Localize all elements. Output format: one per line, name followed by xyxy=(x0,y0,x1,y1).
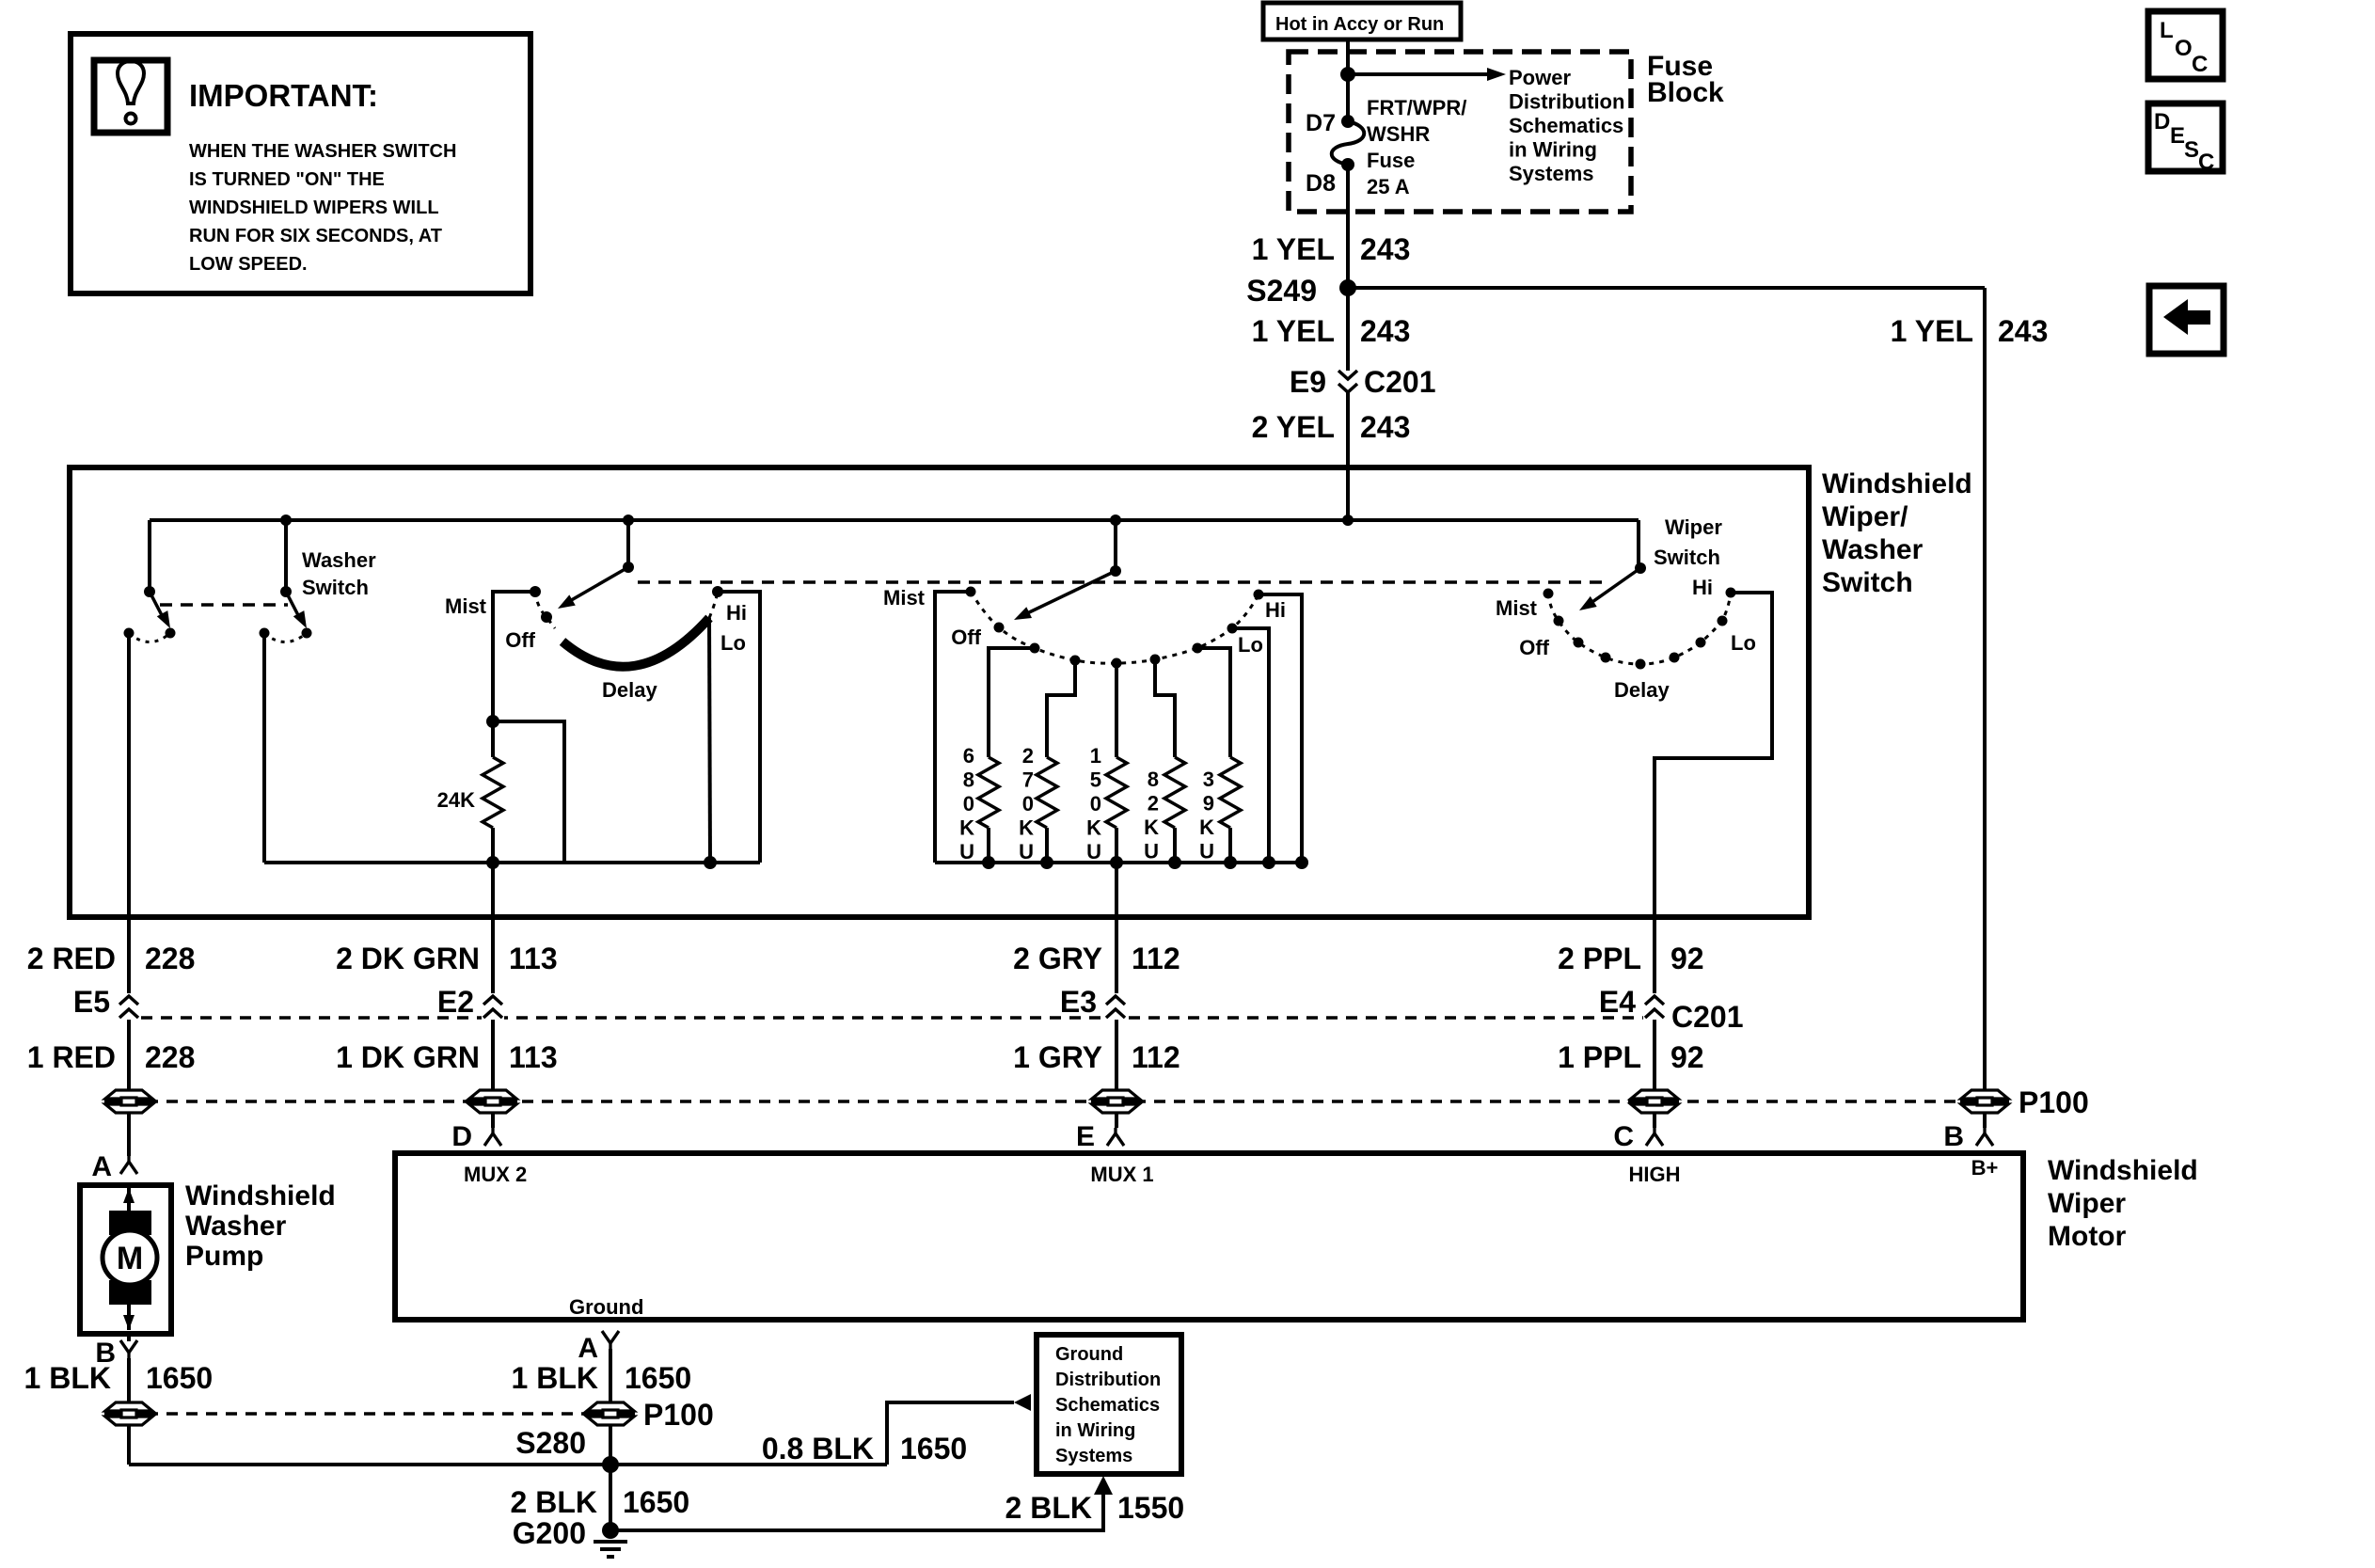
svg-text:K: K xyxy=(1144,816,1159,839)
svg-text:WINDSHIELD WIPERS WILL: WINDSHIELD WIPERS WILL xyxy=(189,198,439,218)
svg-text:L: L xyxy=(2160,18,2174,43)
svg-text:Hi: Hi xyxy=(1265,598,1286,622)
svg-text:25 A: 25 A xyxy=(1367,175,1410,198)
svg-text:2 GRY: 2 GRY xyxy=(1013,942,1102,975)
svg-text:Washer: Washer xyxy=(185,1211,287,1242)
svg-text:0.8 BLK: 0.8 BLK xyxy=(762,1432,874,1465)
svg-text:Fuse: Fuse xyxy=(1367,149,1415,172)
svg-text:M: M xyxy=(117,1241,143,1276)
svg-text:Block: Block xyxy=(1647,77,1724,108)
svg-text:Windshield: Windshield xyxy=(2048,1155,2198,1186)
svg-text:2 YEL: 2 YEL xyxy=(1252,410,1335,444)
svg-text:P100: P100 xyxy=(643,1398,714,1432)
svg-text:A: A xyxy=(578,1333,598,1364)
svg-text:in Wiring: in Wiring xyxy=(1055,1420,1135,1441)
svg-text:B: B xyxy=(1943,1121,1964,1152)
svg-text:Wiper: Wiper xyxy=(2048,1188,2126,1219)
svg-text:S280: S280 xyxy=(515,1426,586,1460)
svg-text:2: 2 xyxy=(1148,792,1159,816)
svg-text:Pump: Pump xyxy=(185,1241,263,1272)
svg-text:Systems: Systems xyxy=(1509,162,1594,185)
svg-text:92: 92 xyxy=(1670,942,1704,975)
svg-text:Mist: Mist xyxy=(883,586,926,610)
svg-text:Distribution: Distribution xyxy=(1055,1370,1161,1390)
svg-text:5: 5 xyxy=(1090,768,1101,792)
svg-text:Systems: Systems xyxy=(1055,1446,1132,1466)
svg-text:in Wiring: in Wiring xyxy=(1509,138,1597,162)
svg-text:Hot in Accy or Run: Hot in Accy or Run xyxy=(1275,14,1444,35)
svg-text:Switch: Switch xyxy=(1822,567,1913,598)
svg-text:228: 228 xyxy=(145,1040,195,1074)
svg-text:E: E xyxy=(2170,123,2185,149)
svg-text:D: D xyxy=(2154,109,2170,135)
svg-text:0: 0 xyxy=(963,792,974,816)
svg-text:E: E xyxy=(1076,1121,1095,1152)
svg-text:Lo: Lo xyxy=(1238,633,1263,657)
svg-text:Hi: Hi xyxy=(1692,576,1713,599)
svg-text:3: 3 xyxy=(1203,768,1214,791)
svg-text:Mist: Mist xyxy=(1496,596,1538,620)
svg-text:7: 7 xyxy=(1022,768,1034,792)
svg-text:LOW SPEED.: LOW SPEED. xyxy=(189,254,308,275)
svg-text:U: U xyxy=(1199,840,1214,863)
svg-text:2 RED: 2 RED xyxy=(27,942,116,975)
svg-text:Lo: Lo xyxy=(720,631,746,655)
svg-text:WHEN THE WASHER SWITCH: WHEN THE WASHER SWITCH xyxy=(189,141,456,162)
svg-text:1650: 1650 xyxy=(625,1361,691,1395)
svg-text:Delay: Delay xyxy=(602,678,657,702)
svg-text:1550: 1550 xyxy=(1117,1491,1184,1525)
svg-text:U: U xyxy=(1144,840,1159,863)
svg-text:C: C xyxy=(2198,150,2214,175)
svg-text:E9: E9 xyxy=(1290,365,1326,399)
svg-text:Ground: Ground xyxy=(569,1295,643,1319)
svg-text:113: 113 xyxy=(509,1040,558,1074)
svg-text:U: U xyxy=(959,840,974,863)
svg-text:1 BLK: 1 BLK xyxy=(24,1361,111,1395)
svg-text:B+: B+ xyxy=(1971,1156,1999,1180)
svg-text:S249: S249 xyxy=(1246,274,1317,308)
svg-text:K: K xyxy=(1086,816,1101,840)
svg-text:Wiper: Wiper xyxy=(1665,515,1722,539)
svg-text:E4: E4 xyxy=(1599,985,1636,1019)
svg-text:Hi: Hi xyxy=(726,601,747,625)
svg-text:Switch: Switch xyxy=(1654,546,1720,569)
svg-text:Distribution: Distribution xyxy=(1509,90,1624,114)
svg-text:D: D xyxy=(451,1121,472,1152)
svg-text:MUX 1: MUX 1 xyxy=(1090,1163,1153,1186)
svg-text:C201: C201 xyxy=(1364,365,1436,399)
svg-text:U: U xyxy=(1019,840,1034,863)
svg-text:8: 8 xyxy=(963,768,974,792)
svg-text:C201: C201 xyxy=(1671,1000,1744,1034)
svg-text:Ground: Ground xyxy=(1055,1344,1123,1365)
svg-text:1 YEL: 1 YEL xyxy=(1891,314,1973,348)
svg-text:U: U xyxy=(1086,840,1101,863)
svg-text:FRT/WPR/: FRT/WPR/ xyxy=(1367,96,1466,119)
svg-text:1 RED: 1 RED xyxy=(27,1040,116,1074)
svg-text:Schematics: Schematics xyxy=(1509,114,1623,137)
svg-text:Lo: Lo xyxy=(1731,631,1756,655)
svg-text:O: O xyxy=(2175,36,2193,61)
svg-text:D7: D7 xyxy=(1306,110,1336,136)
svg-text:Delay: Delay xyxy=(1614,678,1670,702)
svg-text:9: 9 xyxy=(1203,792,1214,816)
svg-text:K: K xyxy=(959,816,974,840)
svg-text:E2: E2 xyxy=(437,985,474,1019)
svg-text:Power: Power xyxy=(1509,66,1571,89)
svg-text:Wiper/: Wiper/ xyxy=(1822,501,1908,532)
svg-text:2: 2 xyxy=(1022,744,1034,768)
svg-text:Schematics: Schematics xyxy=(1055,1395,1160,1416)
svg-text:112: 112 xyxy=(1132,1040,1180,1074)
svg-text:P100: P100 xyxy=(2019,1085,2089,1119)
svg-text:24K: 24K xyxy=(437,788,475,812)
svg-text:WSHR: WSHR xyxy=(1367,122,1430,146)
svg-text:243: 243 xyxy=(1360,232,1410,266)
svg-text:92: 92 xyxy=(1670,1040,1704,1074)
svg-text:E3: E3 xyxy=(1060,985,1097,1019)
svg-text:1 YEL: 1 YEL xyxy=(1252,232,1335,266)
svg-text:RUN FOR SIX SECONDS, AT: RUN FOR SIX SECONDS, AT xyxy=(189,226,442,246)
svg-text:0: 0 xyxy=(1090,792,1101,816)
svg-text:IMPORTANT:: IMPORTANT: xyxy=(189,78,378,113)
svg-text:1 BLK: 1 BLK xyxy=(512,1361,598,1395)
svg-text:112: 112 xyxy=(1132,942,1180,975)
svg-text:G200: G200 xyxy=(513,1516,586,1550)
svg-text:D8: D8 xyxy=(1306,170,1336,197)
svg-text:1650: 1650 xyxy=(146,1361,213,1395)
svg-text:Mist: Mist xyxy=(445,594,487,618)
svg-text:Windshield: Windshield xyxy=(1822,468,1972,499)
svg-text:1650: 1650 xyxy=(900,1432,967,1465)
svg-text:1 GRY: 1 GRY xyxy=(1013,1040,1102,1074)
svg-text:Washer: Washer xyxy=(302,548,376,572)
svg-text:1 DK GRN: 1 DK GRN xyxy=(336,1040,480,1074)
svg-text:Windshield: Windshield xyxy=(185,1180,336,1212)
svg-text:E5: E5 xyxy=(73,985,110,1019)
svg-text:Off: Off xyxy=(1519,636,1549,659)
svg-text:243: 243 xyxy=(1998,314,2048,348)
svg-text:228: 228 xyxy=(145,942,195,975)
svg-text:2 BLK: 2 BLK xyxy=(511,1485,597,1519)
svg-text:Off: Off xyxy=(505,628,535,652)
svg-text:K: K xyxy=(1019,816,1034,840)
svg-text:0: 0 xyxy=(1022,792,1034,816)
svg-text:K: K xyxy=(1199,816,1214,839)
svg-text:Washer: Washer xyxy=(1822,534,1924,565)
svg-text:1: 1 xyxy=(1090,744,1101,768)
svg-text:A: A xyxy=(91,1151,112,1182)
svg-text:MUX 2: MUX 2 xyxy=(464,1163,527,1186)
svg-text:S: S xyxy=(2184,137,2199,163)
svg-text:1 PPL: 1 PPL xyxy=(1558,1040,1641,1074)
svg-text:1 YEL: 1 YEL xyxy=(1252,314,1335,348)
svg-text:C: C xyxy=(2192,52,2208,77)
svg-text:8: 8 xyxy=(1148,768,1159,791)
svg-text:HIGH: HIGH xyxy=(1629,1163,1681,1186)
svg-text:2 BLK: 2 BLK xyxy=(1005,1491,1092,1525)
svg-text:1650: 1650 xyxy=(623,1485,689,1519)
svg-text:Switch: Switch xyxy=(302,576,369,599)
svg-text:243: 243 xyxy=(1360,410,1410,444)
svg-text:2 PPL: 2 PPL xyxy=(1558,942,1641,975)
svg-text:6: 6 xyxy=(963,744,974,768)
svg-text:Off: Off xyxy=(951,626,981,649)
svg-text:113: 113 xyxy=(509,942,558,975)
svg-text:Motor: Motor xyxy=(2048,1221,2127,1252)
svg-text:IS TURNED "ON" THE: IS TURNED "ON" THE xyxy=(189,169,385,190)
svg-text:2 DK GRN: 2 DK GRN xyxy=(336,942,480,975)
svg-text:C: C xyxy=(1613,1121,1634,1152)
svg-text:243: 243 xyxy=(1360,314,1410,348)
